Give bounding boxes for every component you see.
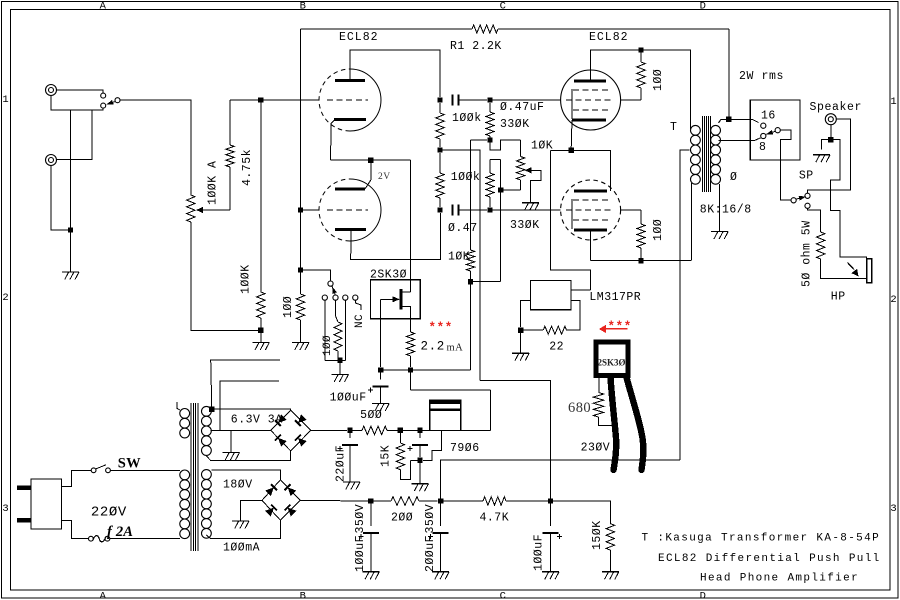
V1a cathode lead (331, 120, 335, 161)
svg-text:6.3V 3A: 6.3V 3A (231, 414, 283, 427)
svg-text:1: 1 (890, 96, 897, 108)
input jack J2 (46, 155, 57, 166)
svg-text:1ØØuF: 1ØØuF (354, 535, 367, 572)
power switch SW (91, 468, 96, 473)
svg-text:Ø.47: Ø.47 (448, 222, 478, 235)
input jack J1 (46, 85, 57, 96)
svg-text:35ØV: 35ØV (354, 504, 367, 534)
U2 plate (574, 190, 607, 193)
node rail NC switch (298, 267, 303, 272)
wire tie left to feedback vertical (551, 149, 572, 151)
svg-text:1ØK: 1ØK (531, 140, 553, 153)
node V1b coupling (437, 207, 442, 212)
svg-text:A: A (100, 590, 107, 600)
wire screen to U1 (621, 99, 641, 101)
svg-text:680: 680 (568, 400, 591, 416)
node cathode U1 / plate U2 tie (569, 148, 574, 153)
svg-text:33ØK: 33ØK (510, 219, 540, 232)
node 330K bottom (487, 137, 492, 142)
NC switch arm (332, 286, 335, 295)
V1a grid dashes (327, 99, 368, 101)
node 15K (398, 428, 403, 433)
wire grid node to pentode U1 (490, 99, 561, 101)
wire x500.6 to feedback node (471, 281, 501, 283)
bridge rectifier D2 diamond (262, 480, 300, 520)
node screen U2 bottom (638, 258, 643, 263)
svg-text:15ØK: 15ØK (591, 520, 604, 550)
svg-text:2V: 2V (378, 172, 391, 182)
svg-text:2ØØuF: 2ØØuF (424, 535, 437, 572)
node input ground (68, 227, 73, 232)
D2 plus 200 line start (300, 499, 368, 502)
D2 minus to ground (241, 500, 263, 521)
wire y150 to x480 drop (440, 150, 480, 380)
FET Q1 box (370, 280, 420, 319)
wire NC bus to ground (339, 360, 341, 374)
resistor 500 (350, 429, 362, 431)
node B+ riser (438, 498, 443, 503)
OT primary tap to B+ rail (680, 150, 689, 460)
NC contact2 drop with resistor 100 (335, 300, 337, 316)
OT secondary 8ohm tap (719, 138, 761, 141)
svg-text:4.75k: 4.75k (241, 149, 254, 186)
regulator 7906 box (430, 400, 461, 431)
U1 cathode (572, 119, 606, 122)
resistor 150K (606, 524, 614, 551)
speaker jack sleeve drop (830, 125, 832, 137)
heater stub upper (211, 360, 280, 409)
resistor 50 ohm 5W (817, 232, 825, 259)
wire cap to grid node lower (459, 209, 488, 211)
ground speaker (813, 154, 830, 156)
capacitor 0.47uF upper (453, 94, 459, 105)
svg-text:22ØV: 22ØV (91, 505, 127, 521)
AC live wire to SW (62, 470, 92, 486)
red arrow annotation (599, 325, 606, 333)
resistor 330K lower (489, 160, 491, 173)
tap pole wire out (780, 130, 791, 200)
bridge top 330K lower (490, 159, 501, 161)
tap switch arm (767, 131, 776, 134)
svg-text:3: 3 (890, 503, 897, 515)
D1 plus to 500 line (311, 429, 347, 431)
svg-text:8K:16/8: 8K:16/8 (700, 204, 752, 217)
svg-text:1ØØ: 1ØØ (282, 296, 295, 318)
speaker hot to SP switch (808, 119, 851, 193)
svg-text:HP: HP (831, 291, 846, 304)
svg-text:f 2A: f 2A (107, 524, 133, 540)
resistor 4.75k (229, 167, 231, 210)
180V top lead to bridge (212, 470, 281, 480)
wire cap to grid node (459, 99, 488, 101)
svg-text:4.7K: 4.7K (480, 512, 510, 525)
Q2 right leg hand-drawn (627, 378, 644, 471)
HP plug symbol (867, 259, 872, 283)
line to 150K (551, 501, 611, 524)
ground bias cap (372, 403, 389, 405)
V1b grid wire from rail (301, 209, 320, 211)
triode V1b envelope (350, 179, 381, 241)
HP plug arrow (848, 263, 855, 270)
wire node to ground (70, 230, 72, 272)
tap select box (750, 100, 800, 160)
vertical x500.6 bridge (500, 160, 502, 282)
180V bottom lead to bridge (206, 520, 280, 538)
resistor 330K upper (489, 103, 491, 112)
feedback drop x470.5 with 10K (470, 140, 472, 250)
bias rail y370 (381, 369, 471, 371)
SP lower contact to 50ohm (808, 208, 821, 232)
svg-text:mA: mA (447, 343, 464, 354)
OT primary bottom lead (691, 183, 693, 261)
tap pole (775, 128, 780, 133)
NC contact 2 (333, 295, 338, 300)
svg-text:C: C (500, 590, 507, 600)
wire sleeve to ground (822, 140, 831, 150)
node rail grid V1b (298, 207, 303, 212)
transistor Q2 2SK30 hand-drawn box (596, 342, 628, 376)
svg-text:T: T (670, 121, 677, 134)
50ohm to HP line (821, 259, 867, 278)
capacitor 100uF reg (419, 430, 421, 438)
NC contact 1 (322, 295, 327, 300)
svg-text:***: *** (429, 321, 453, 335)
svg-text:C: C (500, 1, 507, 13)
node gate bias (378, 367, 383, 372)
svg-text:2W rms: 2W rms (739, 70, 784, 83)
svg-text:1ØØK A: 1ØØK A (207, 161, 220, 205)
SP contact upper (805, 193, 810, 198)
resistor 100 screen U2 (640, 210, 642, 224)
tap contact 16 (761, 123, 766, 128)
PSU primary upper stub (177, 402, 180, 410)
U2 grid rows (573, 199, 608, 201)
svg-text:1ØØK: 1ØØK (240, 264, 253, 294)
V1b cathode lead to tail (351, 213, 441, 260)
wire J1 sleeve bus (51, 96, 103, 111)
LM317 output pin left (521, 301, 531, 328)
jog 330K node to balance pot (490, 140, 521, 150)
capacitor 0.47 lower (453, 204, 459, 215)
svg-text:35ØV: 35ØV (424, 504, 437, 534)
OT core (702, 116, 704, 192)
svg-text:ECL82: ECL82 (339, 31, 379, 44)
resistor 200 (371, 500, 391, 502)
resistor 15K (399, 430, 401, 443)
7906 gnd pin path (423, 431, 442, 461)
wire SW to transformer (110, 469, 180, 471)
B+ riser to 230V rail (441, 460, 681, 501)
svg-text:Ø.47uF: Ø.47uF (500, 101, 544, 114)
NFB riser x728.8 (728, 29, 730, 119)
wire fuse to transformer (110, 538, 180, 540)
U1 plate lead to B+ (591, 50, 691, 126)
wire sleeve bus drop x92 (57, 110, 93, 160)
wire rail to NC switch upper contact (301, 270, 331, 281)
wire node to ground (520, 330, 522, 353)
svg-text:1ØØk: 1ØØk (452, 112, 482, 125)
svg-text:NC: NC (354, 314, 366, 328)
6.3V bottom lead to bridge (206, 451, 290, 460)
line 200 to node (419, 500, 438, 502)
wire 330K node left to feedback drop (471, 139, 488, 141)
potentiometer VR1 100K A (187, 195, 195, 222)
ground rail resistor (292, 342, 309, 344)
Q2 left leg hand-drawn (611, 378, 617, 471)
resistor 680 thin (598, 378, 600, 393)
ground OT secondary (711, 231, 728, 233)
svg-text:1ØØuF: 1ØØuF (533, 534, 546, 571)
svg-text:LM317PR: LM317PR (589, 291, 641, 304)
HT feed line y380.3 (480, 380, 551, 500)
node grid junction (258, 97, 263, 102)
PSU primary main winding (180, 470, 190, 480)
wire J1 tip to input switch (57, 90, 104, 93)
OT primary top lead (690, 126, 692, 129)
FET Q1 drain feed from y160 (410, 160, 412, 292)
ground 150K (602, 571, 619, 573)
U2 cathode (574, 229, 607, 232)
FET Q1 gate lead (380, 299, 382, 367)
svg-text:Head Phone Amplifier: Head Phone Amplifier (700, 573, 859, 585)
V1b grid dashes (327, 209, 368, 211)
svg-text:22: 22 (549, 341, 564, 354)
FET Q1 source jog (402, 307, 411, 319)
svg-text:79Ø6: 79Ø6 (450, 442, 480, 455)
6.3V CT line and ground (211, 429, 271, 431)
node 350V cap1 (368, 498, 373, 503)
feedback drop continues to y370 (470, 282, 472, 370)
wire tie right to U2 plate (571, 150, 610, 191)
svg-text:1ØK: 1ØK (448, 251, 470, 264)
ground 100uF reg (412, 483, 429, 485)
ground 100uF decoupling (542, 571, 559, 573)
PSU transformer core (190, 403, 192, 551)
resistor 2.2mA source (410, 319, 412, 332)
capacitor 100uF 350V (370, 501, 372, 526)
ground NC (332, 373, 349, 375)
svg-text:22ØuF: 22ØuF (335, 445, 348, 482)
SP contact lower (805, 203, 810, 208)
wiper to ground jog (530, 170, 541, 203)
VR1 wiper arrow (196, 207, 203, 214)
line to 4.7K (444, 500, 484, 502)
svg-text:B: B (300, 590, 307, 600)
D1 diodes (275, 414, 287, 426)
node pentode grid1 lower (487, 207, 492, 212)
sleeve return zigzag down (830, 140, 866, 259)
svg-text:2SK3Ø: 2SK3Ø (597, 358, 625, 368)
svg-text:A: A (100, 1, 107, 13)
bias rail y390 (411, 389, 491, 391)
7906 output line (461, 429, 490, 431)
svg-text:B: B (300, 1, 307, 13)
U1 plate (574, 80, 606, 83)
NC contact 4 (353, 295, 358, 300)
node speaker sleeve (828, 137, 833, 142)
node 220uF (347, 428, 352, 433)
svg-text:Ø: Ø (730, 171, 737, 184)
balance pot 10K upper (520, 140, 522, 157)
svg-text:1: 1 (2, 94, 9, 106)
wire switch pole to volume pot (120, 100, 191, 195)
resistor R 100K grid leak (260, 100, 262, 292)
svg-text:3: 3 (2, 503, 9, 515)
wire node to ground (419, 460, 421, 483)
node screen resistor top (638, 47, 643, 52)
fuse f 2A (89, 536, 94, 541)
wire y160 cathode-to-plate link (331, 159, 411, 161)
wire grid line triode V1a (230, 99, 320, 101)
svg-text:T :Kasuga Transformer KA-8-54P: T :Kasuga Transformer KA-8-54P (642, 533, 881, 545)
V1a plate lead to top (350, 50, 440, 97)
ground input (62, 271, 79, 273)
node secondary top / NFB (726, 117, 731, 122)
svg-text:D: D (700, 590, 707, 600)
svg-text:1ØØmA: 1ØØmA (223, 542, 260, 555)
input switch contact upper (101, 93, 106, 98)
ground 200uF 350V (432, 571, 449, 573)
node ground bus (258, 328, 263, 333)
balance pot wiper arrow (525, 167, 532, 173)
U2 cathode lead down (590, 230, 592, 261)
svg-text:33ØK: 33ØK (500, 118, 530, 131)
NC common bus (325, 359, 346, 361)
resistor 100 screen U1 (640, 50, 642, 62)
node triode V1b plate tie (368, 158, 373, 163)
AC neutral wire to fuse (62, 520, 89, 538)
PSU secondary 180V winding (202, 470, 212, 480)
resistor 100 rail to ground (296, 294, 304, 320)
OT secondary bottom lead to ground (719, 184, 721, 232)
svg-text:1ØØ: 1ØØ (652, 69, 665, 91)
U1 g3 strap (571, 89, 573, 119)
tap contact 8 (761, 133, 766, 138)
6.3V top lead to bridge (212, 409, 291, 410)
ground wiper (522, 202, 539, 204)
wire pot bottom to node (501, 189, 521, 191)
SP switch arm (796, 197, 805, 200)
resistor 100k lower (439, 153, 441, 173)
node NC bus (337, 358, 342, 363)
FET Q1 drain jog (402, 291, 411, 293)
OT secondary top lead (719, 119, 759, 123)
ground 100uF 350V (362, 571, 379, 573)
feedback vertical x550.5 to LM317 (551, 150, 591, 290)
node source bias (408, 367, 413, 372)
node pot bottom (498, 187, 503, 192)
left rail vertical x300.5 (300, 29, 302, 294)
node 100uF reg (417, 428, 422, 433)
svg-text:ECL82: ECL82 (589, 31, 629, 44)
capacitor 220uF (349, 430, 351, 438)
node 100k bottom (437, 147, 442, 152)
ground grid leak (252, 342, 269, 344)
wire screen to U2 (621, 209, 641, 211)
svg-text:***: *** (608, 320, 632, 334)
heater stub lower (220, 381, 279, 431)
OT secondary winding (711, 125, 721, 135)
bias link y370-y390 (410, 370, 412, 390)
U1 grid rows (573, 89, 608, 91)
pentode U2 envelope (561, 180, 621, 240)
svg-text:ECL82 Differential Push Pull: ECL82 Differential Push Pull (658, 553, 881, 565)
svg-text:SP: SP (799, 170, 814, 183)
svg-text:5Ø ohm 5W: 5Ø ohm 5W (801, 220, 814, 287)
svg-text:15K: 15K (380, 445, 393, 467)
svg-text:2: 2 (2, 292, 9, 304)
resistor 100k upper (439, 103, 441, 113)
svg-text:1ØØuF: 1ØØuF (330, 392, 367, 405)
svg-text:1ØØ: 1ØØ (322, 335, 334, 356)
resistor 22 (521, 329, 544, 331)
line 4.7K to node (506, 500, 548, 502)
svg-text:18ØV: 18ØV (223, 479, 253, 492)
V1b plate lead (365, 160, 371, 189)
svg-text:SW: SW (118, 456, 141, 472)
node 6.3V top (209, 407, 214, 412)
V1a plate (335, 79, 365, 82)
node feedback x470 (468, 279, 473, 284)
svg-text:16: 16 (761, 110, 776, 123)
node V1a plate (437, 97, 442, 102)
NC contact 3 (343, 295, 348, 300)
pentode U1 envelope (561, 70, 621, 130)
svg-text:R1 2.2K: R1 2.2K (450, 40, 502, 53)
wire VR1 wiper to R 4.75k (203, 209, 230, 211)
ground 220uF (343, 481, 360, 483)
input switch contact lower (101, 103, 106, 108)
wire grid node to pentode U2 (490, 209, 561, 211)
V1b cathode (335, 228, 366, 231)
wire 15K return (411, 459, 420, 461)
V1b plate (335, 188, 365, 191)
LM317PR box (531, 280, 572, 309)
wire J2 sleeve to ground node (51, 166, 68, 231)
ground LM317 (512, 352, 529, 354)
FET Q1 channel bar (400, 289, 403, 310)
capacitor 200uF 350V (440, 501, 442, 526)
U2 g3 strap (571, 199, 573, 229)
FET Q1 gate arrow (381, 298, 399, 300)
svg-text:D: D (700, 1, 707, 13)
D2 diodes (265, 484, 277, 496)
NC contact4 stub (355, 300, 361, 310)
svg-text:2: 2 (890, 294, 897, 306)
LM317 input pin (571, 289, 590, 291)
PSU primary upper winding (180, 409, 190, 419)
svg-text:1ØØk: 1ØØk (451, 171, 481, 184)
svg-text:Speaker: Speaker (810, 101, 863, 114)
capacitor 100uF decoupling (550, 501, 552, 526)
SP pole (791, 198, 796, 203)
wire sleeve bus drop x70.5 (70, 110, 72, 230)
svg-text:2.2: 2.2 (421, 340, 445, 354)
top B+ line with R1 (301, 28, 473, 30)
V1a cathode (334, 118, 366, 121)
regulator feed x490.3 (489, 390, 491, 430)
AC plug prongs (17, 486, 31, 491)
input switch pole (115, 98, 120, 103)
AC plug body (31, 479, 62, 529)
wire node to ground (260, 330, 262, 342)
capacitor 100uF bias (380, 370, 382, 380)
speaker jack (825, 114, 836, 125)
svg-text:2ØØ: 2ØØ (391, 512, 413, 525)
OT primary winding (691, 125, 701, 135)
U1 cathode lead (570, 120, 573, 148)
wire VR1 bottom to ground bus (191, 222, 258, 330)
